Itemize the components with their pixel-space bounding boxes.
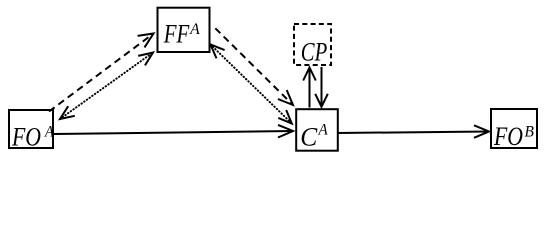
dotted double arrow FF^A to C^A bbox=[211, 45, 292, 124]
solid arrow C^A to FO^B bbox=[337, 125, 489, 138]
dashed arrow FO^A to FF^A bbox=[49, 34, 154, 112]
svg-text:FO: FO bbox=[11, 123, 41, 152]
svg-text:C: C bbox=[300, 123, 318, 152]
svg-text:FO: FO bbox=[493, 122, 523, 151]
box FF^A bbox=[158, 8, 210, 52]
box FO^B bbox=[491, 109, 537, 151]
svg-text:A: A bbox=[189, 21, 200, 38]
solid arrow FO^A to C^A bbox=[54, 125, 293, 138]
svg-text:B: B bbox=[525, 124, 535, 141]
svg-text:FF: FF bbox=[163, 20, 190, 49]
box FO^A bbox=[9, 110, 54, 152]
dashed arrow FF^A to C^A bbox=[212, 25, 293, 105]
box CP (dashed) bbox=[294, 24, 331, 67]
down arrow CP to C^A bbox=[315, 67, 328, 107]
svg-text:A: A bbox=[44, 124, 54, 141]
up arrow C^A to CP bbox=[303, 68, 316, 108]
dotted double arrow FO^A to FF^A bbox=[60, 53, 153, 120]
svg-text:CP: CP bbox=[301, 38, 327, 67]
svg-text:A: A bbox=[318, 122, 329, 139]
box C^A bbox=[296, 109, 338, 151]
